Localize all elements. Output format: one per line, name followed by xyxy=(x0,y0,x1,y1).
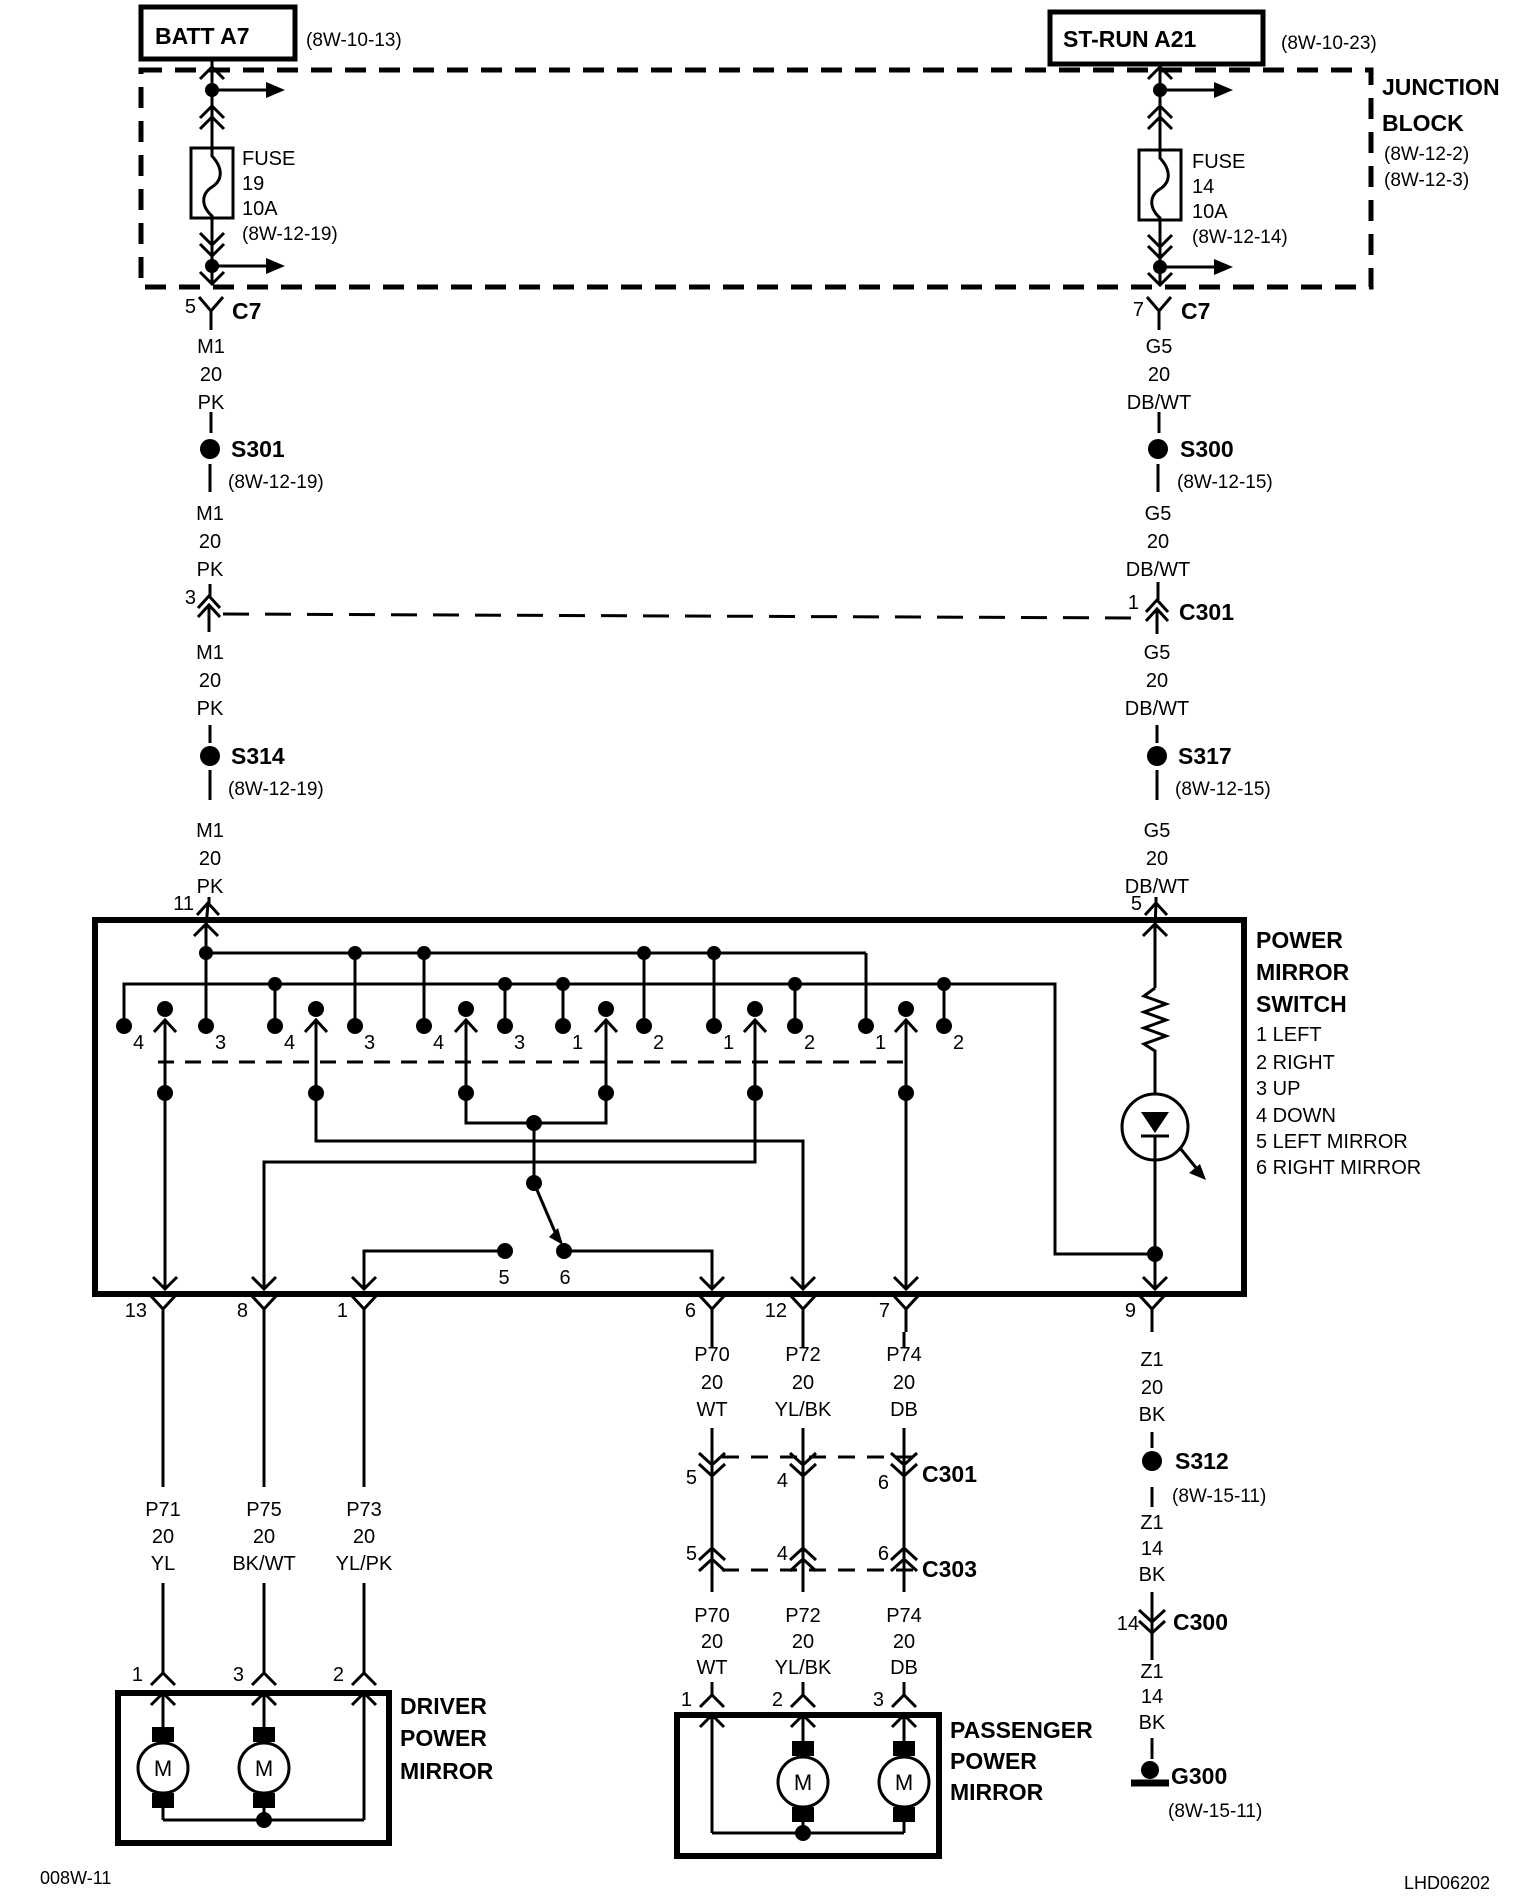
svg-text:2: 2 xyxy=(333,1664,344,1686)
svg-text:P70: P70 xyxy=(694,1344,730,1366)
svg-text:1: 1 xyxy=(1128,592,1139,614)
svg-text:3: 3 xyxy=(233,1664,244,1686)
svg-text:Z1: Z1 xyxy=(1140,1661,1163,1683)
svg-text:5: 5 xyxy=(686,1543,697,1565)
svg-text:BK: BK xyxy=(1139,1712,1166,1734)
svg-text:7: 7 xyxy=(1133,299,1144,321)
svg-text:P71: P71 xyxy=(145,1499,181,1521)
svg-text:C7: C7 xyxy=(1181,298,1210,324)
svg-text:6: 6 xyxy=(878,1472,889,1494)
svg-text:PK: PK xyxy=(198,392,225,414)
svg-text:DB: DB xyxy=(890,1399,918,1421)
svg-text:C301: C301 xyxy=(1179,599,1234,625)
svg-text:10A: 10A xyxy=(1192,201,1228,223)
svg-text:1 LEFT: 1 LEFT xyxy=(1256,1024,1322,1046)
svg-text:YL/BK: YL/BK xyxy=(775,1657,832,1679)
svg-text:20: 20 xyxy=(701,1631,723,1653)
svg-text:M: M xyxy=(255,1756,273,1781)
svg-text:P70: P70 xyxy=(694,1605,730,1627)
svg-text:S312: S312 xyxy=(1175,1448,1229,1474)
svg-text:G5: G5 xyxy=(1146,336,1173,358)
svg-text:6: 6 xyxy=(685,1300,696,1322)
svg-text:POWER: POWER xyxy=(950,1748,1037,1774)
svg-text:20: 20 xyxy=(1147,531,1169,553)
svg-text:G300: G300 xyxy=(1171,1763,1227,1789)
svg-text:1: 1 xyxy=(875,1032,886,1054)
svg-text:20: 20 xyxy=(1146,670,1168,692)
svg-text:14: 14 xyxy=(1141,1538,1163,1560)
svg-text:10A: 10A xyxy=(242,198,278,220)
svg-text:12: 12 xyxy=(765,1300,787,1322)
svg-text:6: 6 xyxy=(878,1543,889,1565)
svg-text:2: 2 xyxy=(804,1032,815,1054)
svg-text:20: 20 xyxy=(199,670,221,692)
svg-text:5 LEFT MIRROR: 5 LEFT MIRROR xyxy=(1256,1131,1408,1153)
svg-text:M1: M1 xyxy=(197,336,225,358)
svg-text:4: 4 xyxy=(777,1543,788,1565)
svg-text:14: 14 xyxy=(1117,1613,1139,1635)
svg-text:3: 3 xyxy=(185,587,196,609)
svg-text:FUSE: FUSE xyxy=(242,148,295,170)
svg-text:1: 1 xyxy=(132,1664,143,1686)
svg-text:20: 20 xyxy=(199,848,221,870)
svg-text:5: 5 xyxy=(185,296,196,318)
svg-text:G5: G5 xyxy=(1145,503,1172,525)
svg-text:1: 1 xyxy=(337,1300,348,1322)
svg-text:C301: C301 xyxy=(922,1461,977,1487)
svg-text:2: 2 xyxy=(953,1032,964,1054)
svg-text:8: 8 xyxy=(237,1300,248,1322)
svg-text:M: M xyxy=(794,1770,812,1795)
svg-text:PK: PK xyxy=(197,559,224,581)
svg-text:4: 4 xyxy=(284,1032,295,1054)
svg-text:MIRROR: MIRROR xyxy=(1256,959,1350,985)
svg-text:20: 20 xyxy=(1148,364,1170,386)
svg-text:P72: P72 xyxy=(785,1605,821,1627)
svg-text:BK: BK xyxy=(1139,1564,1166,1586)
svg-text:14: 14 xyxy=(1141,1686,1163,1708)
svg-text:DRIVER: DRIVER xyxy=(400,1693,487,1719)
svg-text:20: 20 xyxy=(701,1372,723,1394)
svg-text:1: 1 xyxy=(723,1032,734,1054)
svg-text:2: 2 xyxy=(772,1689,783,1711)
svg-text:3 UP: 3 UP xyxy=(1256,1078,1300,1100)
svg-text:(8W-15-11): (8W-15-11) xyxy=(1168,1801,1262,1822)
svg-text:(8W-12-3): (8W-12-3) xyxy=(1384,170,1469,191)
svg-text:4 DOWN: 4 DOWN xyxy=(1256,1105,1336,1127)
svg-text:G5: G5 xyxy=(1144,642,1171,664)
svg-text:11: 11 xyxy=(173,893,194,915)
svg-text:LHD06202: LHD06202 xyxy=(1404,1873,1490,1893)
svg-text:S300: S300 xyxy=(1180,436,1234,462)
svg-text:ST-RUN A21: ST-RUN A21 xyxy=(1063,26,1197,52)
svg-text:2 RIGHT: 2 RIGHT xyxy=(1256,1052,1335,1074)
svg-text:19: 19 xyxy=(242,173,264,195)
svg-text:9: 9 xyxy=(1125,1300,1136,1322)
svg-text:YL/BK: YL/BK xyxy=(775,1399,832,1421)
svg-text:Z1: Z1 xyxy=(1140,1512,1163,1534)
svg-text:SWITCH: SWITCH xyxy=(1256,991,1347,1017)
svg-text:BK/WT: BK/WT xyxy=(232,1553,295,1575)
svg-text:3: 3 xyxy=(364,1032,375,1054)
svg-text:20: 20 xyxy=(152,1526,174,1548)
svg-text:(8W-10-23): (8W-10-23) xyxy=(1281,33,1377,54)
svg-text:M: M xyxy=(895,1770,913,1795)
svg-text:(8W-12-15): (8W-12-15) xyxy=(1175,779,1271,800)
svg-text:DB: DB xyxy=(890,1657,918,1679)
svg-text:PK: PK xyxy=(197,876,224,898)
svg-text:WT: WT xyxy=(696,1657,727,1679)
svg-text:DB/WT: DB/WT xyxy=(1126,559,1190,581)
svg-text:20: 20 xyxy=(200,364,222,386)
svg-text:BK: BK xyxy=(1139,1404,1166,1426)
svg-text:M1: M1 xyxy=(196,642,224,664)
svg-text:POWER: POWER xyxy=(400,1725,487,1751)
svg-text:S317: S317 xyxy=(1178,743,1232,769)
svg-text:20: 20 xyxy=(253,1526,275,1548)
svg-text:MIRROR: MIRROR xyxy=(950,1779,1044,1805)
svg-text:20: 20 xyxy=(1146,848,1168,870)
svg-text:M1: M1 xyxy=(196,503,224,525)
svg-text:4: 4 xyxy=(133,1032,144,1054)
svg-text:3: 3 xyxy=(873,1689,884,1711)
svg-text:P75: P75 xyxy=(246,1499,282,1521)
svg-text:3: 3 xyxy=(215,1032,226,1054)
svg-text:(8W-12-19): (8W-12-19) xyxy=(228,779,324,800)
svg-text:20: 20 xyxy=(353,1526,375,1548)
svg-text:P74: P74 xyxy=(886,1605,922,1627)
svg-text:G5: G5 xyxy=(1144,820,1171,842)
svg-text:BLOCK: BLOCK xyxy=(1382,110,1464,136)
svg-text:BATT A7: BATT A7 xyxy=(155,23,250,49)
svg-text:YL: YL xyxy=(151,1553,175,1575)
svg-text:3: 3 xyxy=(514,1032,525,1054)
svg-text:JUNCTION: JUNCTION xyxy=(1382,74,1500,100)
svg-text:S314: S314 xyxy=(231,743,285,769)
svg-text:PK: PK xyxy=(197,698,224,720)
svg-text:C7: C7 xyxy=(232,298,261,324)
svg-text:S301: S301 xyxy=(231,436,285,462)
svg-text:DB/WT: DB/WT xyxy=(1127,392,1191,414)
svg-text:M: M xyxy=(154,1756,172,1781)
svg-text:5: 5 xyxy=(686,1467,697,1489)
svg-text:7: 7 xyxy=(879,1300,890,1322)
svg-text:5: 5 xyxy=(1131,893,1142,915)
svg-text:4: 4 xyxy=(433,1032,444,1054)
svg-text:14: 14 xyxy=(1192,176,1214,198)
svg-text:6 RIGHT MIRROR: 6 RIGHT MIRROR xyxy=(1256,1157,1421,1179)
svg-text:P72: P72 xyxy=(785,1344,821,1366)
svg-text:20: 20 xyxy=(199,531,221,553)
svg-text:WT: WT xyxy=(696,1399,727,1421)
svg-text:(8W-12-2): (8W-12-2) xyxy=(1384,144,1469,165)
svg-text:13: 13 xyxy=(125,1300,147,1322)
svg-text:5: 5 xyxy=(498,1267,509,1289)
svg-text:FUSE: FUSE xyxy=(1192,151,1245,173)
svg-text:(8W-12-19): (8W-12-19) xyxy=(228,472,324,493)
svg-text:4: 4 xyxy=(777,1470,788,1492)
svg-text:20: 20 xyxy=(792,1372,814,1394)
svg-text:(8W-10-13): (8W-10-13) xyxy=(306,30,402,51)
svg-text:(8W-12-19): (8W-12-19) xyxy=(242,224,338,245)
svg-text:1: 1 xyxy=(572,1032,583,1054)
svg-text:C300: C300 xyxy=(1173,1609,1228,1635)
svg-text:20: 20 xyxy=(1141,1377,1163,1399)
svg-text:POWER: POWER xyxy=(1256,927,1343,953)
svg-text:008W-11: 008W-11 xyxy=(40,1868,111,1888)
svg-text:(8W-12-15): (8W-12-15) xyxy=(1177,472,1273,493)
svg-text:M1: M1 xyxy=(196,820,224,842)
svg-text:20: 20 xyxy=(893,1631,915,1653)
svg-text:Z1: Z1 xyxy=(1140,1349,1163,1371)
svg-text:(8W-15-11): (8W-15-11) xyxy=(1172,1486,1266,1507)
svg-text:C303: C303 xyxy=(922,1556,977,1582)
svg-text:2: 2 xyxy=(653,1032,664,1054)
svg-text:1: 1 xyxy=(681,1689,692,1711)
svg-text:YL/PK: YL/PK xyxy=(336,1553,393,1575)
svg-text:PASSENGER: PASSENGER xyxy=(950,1717,1093,1743)
svg-text:DB/WT: DB/WT xyxy=(1125,698,1189,720)
svg-text:(8W-12-14): (8W-12-14) xyxy=(1192,227,1288,248)
svg-text:MIRROR: MIRROR xyxy=(400,1758,494,1784)
svg-text:20: 20 xyxy=(792,1631,814,1653)
svg-text:6: 6 xyxy=(559,1267,570,1289)
svg-text:P74: P74 xyxy=(886,1344,922,1366)
svg-text:P73: P73 xyxy=(346,1499,382,1521)
svg-text:20: 20 xyxy=(893,1372,915,1394)
